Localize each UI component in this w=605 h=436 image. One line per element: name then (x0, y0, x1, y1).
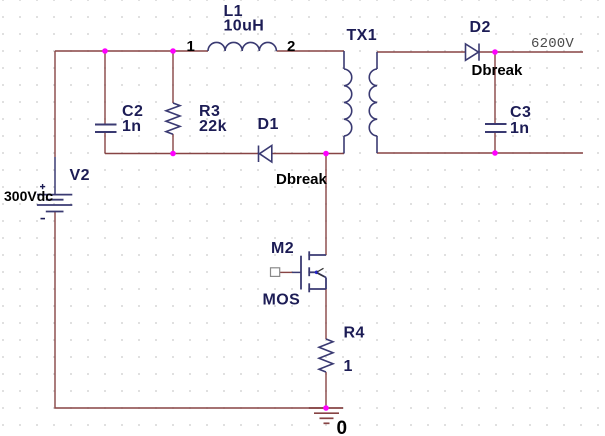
svg-text:2: 2 (287, 38, 295, 55)
resistor R4 (319, 339, 333, 372)
wire secondary top (TX1 to D2 anode) (377, 51, 466, 53)
wire MOSFET drain vertical (325, 154, 327, 256)
diode D1 (259, 146, 272, 163)
svg-text:TX1: TX1 (347, 27, 378, 44)
svg-text:6200V: 6200V (531, 36, 574, 52)
junction node L1/C2 (102, 48, 108, 54)
svg-text:0: 0 (337, 418, 348, 436)
svg-text:1: 1 (187, 38, 195, 55)
wire D2 cathode to output (479, 51, 583, 53)
voltage source V2 (37, 195, 72, 212)
svg-text:22k: 22k (199, 118, 227, 135)
wire R3 top stub (172, 51, 174, 103)
gate lead pin segment M2 (292, 271, 302, 273)
bulk arrow dot M2 (315, 271, 319, 275)
junction node primary/drain (323, 151, 329, 157)
wire secondary bottom (377, 152, 583, 154)
svg-text:M2: M2 (271, 240, 294, 257)
svg-text:MOS: MOS (263, 292, 301, 309)
svg-text:1n: 1n (510, 120, 529, 137)
wire transformer primary bottom to junction (326, 153, 344, 155)
svg-text:R4: R4 (344, 325, 365, 342)
wire left rail upper (top corner down to V2 +) (54, 51, 56, 157)
wire C2 bottom stub (104, 133, 106, 154)
junction node ground (323, 405, 329, 411)
svg-text:D1: D1 (258, 116, 279, 133)
wire R3 bottom stub (172, 134, 174, 154)
capacitor C2 (95, 125, 117, 133)
wire C2 top stub (104, 51, 106, 124)
svg-text:10uH: 10uH (224, 18, 265, 35)
bulk arrowhead M2 (317, 268, 324, 276)
wire top-left horizontal (V2 top to L1 pin1) (55, 50, 208, 52)
transistor M2 (301, 251, 326, 292)
wire mid horizontal (C2 bottom to D1 cathode) (105, 153, 258, 155)
diode D2 (466, 44, 480, 61)
inductor L1 (208, 42, 276, 51)
gate pad square M2 (271, 268, 280, 277)
capacitor C3 (485, 124, 507, 132)
svg-text:D2: D2 (470, 19, 491, 36)
wire MOSFET gate lead (277, 271, 292, 273)
svg-text:300Vdc: 300Vdc (4, 188, 53, 204)
wire R4 bottom to ground (325, 372, 327, 408)
wire C3 top stub (494, 52, 496, 124)
svg-text:1n: 1n (122, 118, 141, 135)
svg-text:Dbreak: Dbreak (276, 171, 328, 188)
transformer TX1 (344, 51, 377, 154)
junction node R3 bottom (170, 151, 176, 157)
junction node L1/R3 (170, 48, 176, 54)
svg-text:Dbreak: Dbreak (472, 62, 524, 79)
svg-text:1: 1 (344, 358, 353, 375)
plus sign V2 (40, 184, 45, 189)
svg-text:V2: V2 (70, 167, 90, 184)
V2 top pin stub (54, 157, 56, 195)
wire D1 anode to primary junction (272, 153, 326, 155)
ground symbol (309, 408, 343, 423)
resistor R3 (166, 103, 180, 134)
junction node C3 bottom (492, 150, 498, 156)
minus sign V2 (41, 218, 46, 220)
wire C3 bottom stub (494, 133, 496, 154)
wire left rail lower (V2 - down and across to ground) (55, 212, 326, 409)
svg-text:C3: C3 (510, 104, 531, 121)
junction node D2/C3 (492, 49, 498, 55)
wire L1 pin2 to transformer primary top (277, 50, 345, 52)
wire MOSFET source to R4 (325, 289, 327, 339)
